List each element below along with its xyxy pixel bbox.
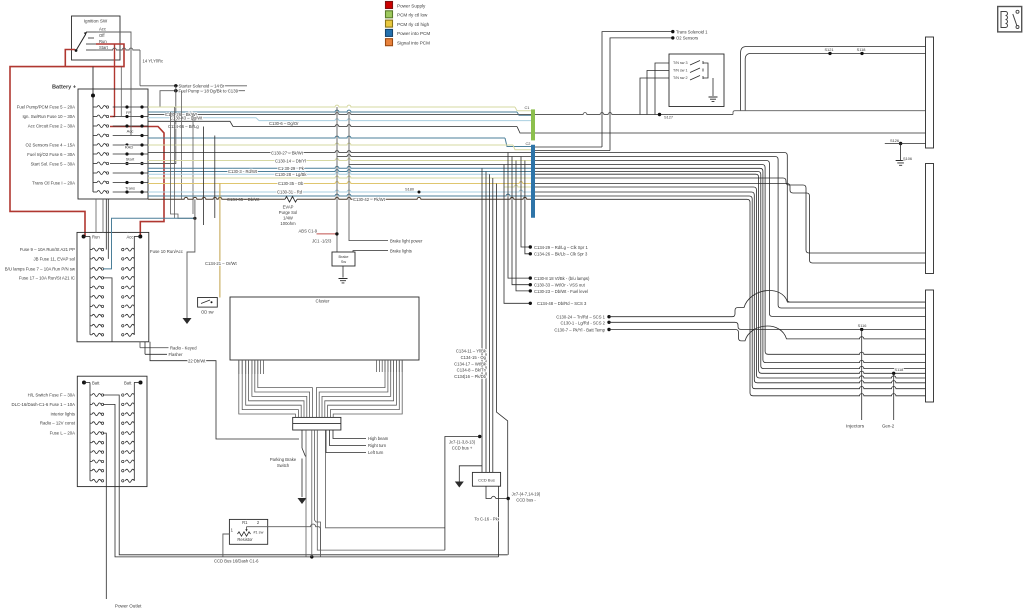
svg-text:C130-6 – Dg/Or: C130-6 – Dg/Or (269, 121, 299, 126)
svg-text:C134-29 – Rd/Lg – Clk Spr 1: C134-29 – Rd/Lg – Clk Spr 1 (534, 245, 588, 250)
wire pcm C2 line 3 to right bus (535, 165, 926, 355)
svg-text:Injectors: Injectors (846, 424, 865, 430)
ignition contact Off (88, 37, 94, 39)
wire pcm C2 line 5 to right bus (535, 172, 926, 369)
wire pcm C2 line 6 to right bus (535, 174, 926, 373)
olive wire to OD switch (219, 184, 221, 298)
relay icon K1 (998, 7, 1022, 32)
svg-text:Start Sol. Fuse 5 – 30A: Start Sol. Fuse 5 – 30A (31, 162, 76, 167)
svg-text:Cluster: Cluster (316, 299, 330, 304)
svg-text:Battery +: Battery + (52, 85, 77, 91)
svg-text:High beam: High beam (368, 436, 389, 441)
wire pcm C2 line 2 to right bus (535, 161, 926, 317)
svg-text:C134-8 – Bk/Tn: C134-8 – Bk/Tn (457, 368, 487, 373)
red wire ABS C1-9 (317, 233, 337, 235)
wire top pair a to right bus (741, 47, 926, 111)
wire pcm C2 line 1 to right bus (535, 157, 926, 309)
fuel pump node (174, 89, 177, 92)
batt temp wire arc (609, 326, 926, 341)
node S127 (658, 113, 661, 116)
box1 to box2 verticals (95, 199, 97, 232)
svg-text:Jc7-(4-7,14-19): Jc7-(4-7,14-19) (512, 491, 541, 496)
svg-text:C130-7 – Pk/Yl - Batt Temp: C130-7 – Pk/Yl - Batt Temp (554, 327, 605, 332)
node S118b (892, 372, 895, 375)
legend power supply swatch (386, 2, 393, 9)
svg-text:C130-14 – Db/Yl: C130-14 – Db/Yl (275, 158, 306, 163)
wire start contact (96, 48, 140, 50)
bu lamps wire (508, 153, 530, 279)
brake switch box (332, 252, 355, 266)
starter solenoid node (174, 84, 177, 87)
wire texture vertical e (192, 115, 194, 215)
wire texture vertical c (203, 127, 205, 226)
fuse box 2 acc terminal (138, 235, 142, 239)
svg-text:EVAP: EVAP (283, 205, 294, 210)
svg-text:PCM rly ctl high: PCM rly ctl high (397, 22, 430, 27)
cluster right harness (333, 360, 402, 417)
wire teal to C2 top (148, 136, 505, 138)
fuse box 1 outline (78, 89, 148, 199)
wire starter branch down (110, 86, 176, 164)
wire bundle feeder y152.5 (148, 151, 531, 153)
svg-text:Start: Start (99, 45, 109, 50)
ignition contact Run (86, 43, 96, 45)
batt temp node (607, 328, 610, 331)
node S121 (828, 52, 831, 55)
brake light power wire (349, 112, 388, 241)
o2 sensors wire (610, 38, 673, 151)
node S118 top (860, 52, 863, 55)
fuse box 3 batt terminal 1 (82, 381, 86, 385)
svg-text:C130-35 - Ob: C130-35 - Ob (278, 181, 304, 186)
cluster box (230, 297, 419, 360)
svg-text:JB Fuse 11, EVAP sol: JB Fuse 11, EVAP sol (33, 256, 75, 261)
svg-text:To C-16 - Pk: To C-16 - Pk (474, 516, 498, 521)
scs3 wire (504, 165, 530, 304)
ccd ground arrow (455, 482, 464, 488)
wire bundle feeder y192.0 (148, 190, 531, 192)
svg-text:PCM rly ctl low: PCM rly ctl low (397, 13, 428, 18)
svg-text:Gen-2: Gen-2 (882, 424, 895, 429)
fuse box 1 bus (92, 96, 94, 193)
resistor EVAP purge sol (285, 197, 297, 203)
svg-text:1/4W: 1/4W (283, 216, 293, 221)
gray wire to ground arrow (187, 218, 195, 318)
wire pcm C2 line 9 to right bus (535, 187, 926, 378)
clk spr 1 node (529, 245, 532, 248)
wire bundle feeder y168.3 (148, 166, 531, 168)
svg-text:S126: S126 (890, 138, 899, 143)
cluster right pin stubs (376, 360, 378, 372)
ccd ground wire (459, 466, 482, 482)
svg-text:Jc7-(1-3,8-13): Jc7-(1-3,8-13) (449, 439, 476, 444)
svg-text:Run: Run (92, 235, 100, 240)
fuse box 2 left fuses (89, 237, 91, 335)
fuse box 2 run terminal (82, 235, 86, 239)
parking brake wire (301, 430, 303, 448)
right bus bar 3 (926, 290, 934, 402)
ignition contact Acc (86, 31, 96, 33)
svg-text:C134-48 – Db/Rd – SCS 3: C134-48 – Db/Rd – SCS 3 (537, 301, 587, 306)
scs2 wire (609, 322, 926, 329)
brake lights wire (353, 251, 388, 252)
wire C130-43 light blue (148, 118, 259, 121)
legend power into PCM swatch (386, 29, 393, 36)
jc7 left wire (445, 437, 480, 551)
wire bundle feeder y196.0 (148, 194, 531, 196)
svg-text:Start: Start (126, 157, 135, 162)
svg-text:C130-24 – Tn/Rd – SCS 1: C130-24 – Tn/Rd – SCS 1 (556, 314, 605, 319)
gray od wire node (193, 217, 196, 220)
R1 pin1 wire (223, 534, 230, 557)
fuse box 3 left fuses (89, 383, 91, 481)
power outlet wire (103, 433, 106, 599)
svg-text:Off: Off (99, 33, 105, 38)
wire acc contact down (96, 32, 131, 136)
OD switch box (198, 298, 218, 308)
scs3 node (529, 302, 532, 305)
T/N ground (709, 97, 718, 101)
svg-text:Acc: Acc (127, 235, 134, 240)
wire pcm C2 line 10 to right bus (535, 192, 926, 383)
bu lamps node (529, 276, 532, 279)
fuse box 2 right fuses (133, 237, 135, 335)
svg-text:S118: S118 (895, 367, 904, 372)
svg-text:C130-28 – Lg/Bk: C130-28 – Lg/Bk (275, 172, 307, 177)
svg-text:T/N sw 1: T/N sw 1 (673, 69, 688, 73)
svg-text:C130-42 – Pk/Wt: C130-42 – Pk/Wt (353, 197, 386, 202)
svg-text:C130-1 - Lg/Rd - SCS 2: C130-1 - Lg/Rd - SCS 2 (561, 320, 606, 325)
node S116 (860, 328, 863, 331)
brake node (335, 232, 338, 235)
clk spr 3 wire (525, 161, 530, 254)
wire row4 down (103, 278, 112, 342)
svg-text:Trans Solenoid 1: Trans Solenoid 1 (676, 29, 708, 34)
ground arrow left (183, 318, 192, 324)
ccd bus box (472, 472, 500, 486)
svg-text:S118: S118 (857, 47, 866, 52)
scs1 wire arc (609, 290, 926, 316)
ccd bus - wire (486, 486, 508, 498)
wire C134-65 hops (148, 197, 285, 199)
svg-text:C1: C1 (525, 105, 530, 110)
scs1 node (607, 315, 610, 318)
right turn wire (330, 430, 367, 446)
cluster connector bar (293, 417, 341, 430)
svg-text:100ohm: 100ohm (280, 221, 296, 226)
ccd feed wire 1 (103, 395, 508, 555)
svg-text:C134-26 – Bk/Lb – Clk Spr 3: C134-26 – Bk/Lb – Clk Spr 3 (534, 252, 588, 257)
svg-text:Brake light power: Brake light power (390, 238, 423, 243)
PCM connector C2 (531, 145, 535, 218)
svg-text:Fuel Pump – 18 Dg/Bk to C139: Fuel Pump – 18 Dg/Bk to C139 (179, 89, 239, 94)
wire pcm C2 line 12 to right bus (535, 199, 926, 395)
svg-text:Fuse 9 – 10A Run/St A21 PP: Fuse 9 – 10A Run/St A21 PP (20, 247, 75, 252)
svg-text:Parking Brake: Parking Brake (270, 457, 297, 462)
svg-text:Trans Ctl Fuse I – 20A: Trans Ctl Fuse I – 20A (32, 181, 75, 186)
svg-text:Brake: Brake (339, 255, 349, 259)
svg-text:Sw: Sw (341, 260, 347, 264)
T/N switch common (703, 63, 708, 78)
right bus bar 1 (926, 37, 934, 148)
wire fuel pump feed (160, 91, 245, 107)
svg-text:Power Outlet: Power Outlet (115, 604, 142, 609)
wire fuel pump branch (181, 91, 183, 200)
fuel level wire (516, 161, 530, 291)
gray wire above node (194, 199, 196, 218)
wire top pair b to right bus (745, 53, 925, 110)
svg-text:O2 Sensors: O2 Sensors (676, 36, 698, 41)
wire ign aux vertical (120, 67, 122, 117)
node S180 (418, 191, 421, 194)
svg-text:CCD Bus: CCD Bus (478, 477, 495, 482)
svg-text:14 Yl,Yl/Rc: 14 Yl,Yl/Rc (143, 59, 164, 64)
svg-text:Flasher: Flasher (169, 352, 184, 357)
svg-text:CCD Bus 16/Dash C1-6: CCD Bus 16/Dash C1-6 (214, 558, 259, 563)
T/N wires to S127 line (655, 63, 669, 115)
wire pcm C2 line 0 to right bus (535, 153, 926, 303)
resistor R1 element (238, 532, 251, 536)
clk spr 3 node (529, 252, 532, 255)
svg-text:Batt: Batt (92, 381, 100, 386)
svg-text:S106: S106 (903, 156, 912, 161)
ccd bus - down wire (507, 499, 509, 555)
ccd verticals (481, 168, 483, 472)
svg-text:Ignition SW: Ignition SW (84, 19, 108, 24)
brake switch ground (339, 279, 348, 283)
svg-text:#1 sw: #1 sw (253, 530, 263, 534)
ccd right vertical (497, 184, 508, 499)
teal backup lamp wire (103, 218, 195, 269)
svg-text:C130-3 - Rd/Wt: C130-3 - Rd/Wt (228, 169, 258, 174)
svg-text:CCD bus -: CCD bus - (516, 497, 536, 502)
wire texture vertical a (171, 112, 195, 218)
svg-text:DLC-16/Dash-C1-6 Fuse 1 – 10A: DLC-16/Dash-C1-6 Fuse 1 – 10A (11, 402, 75, 407)
svg-text:Signal into PCM: Signal into PCM (397, 41, 430, 46)
wire texture vertical d (214, 136, 216, 219)
svg-text:S180: S180 (405, 186, 415, 191)
bar down wire a (305, 430, 307, 557)
vss out wire (512, 157, 530, 285)
injectors wire (861, 329, 863, 420)
left turn wire (326, 430, 366, 453)
wire starter solenoid (140, 85, 247, 87)
svg-text:Acc Circuit Fuse 2 – 30A: Acc Circuit Fuse 2 – 30A (28, 124, 75, 129)
wire bundle feeder y174.2 (148, 172, 531, 174)
wire bundle feeder y160.5 (148, 159, 531, 161)
fuse box 3 outline (77, 376, 147, 486)
flasher wire (145, 353, 167, 355)
svg-text:Purge Sol: Purge Sol (279, 210, 297, 215)
svg-text:CCD bus +: CCD bus + (452, 445, 473, 450)
wire khaki to C1 (148, 105, 515, 107)
gen2 wire (893, 373, 895, 420)
svg-text:RAD: RAD (125, 144, 134, 149)
cluster left pin stubs (238, 360, 240, 374)
fuse box 1 fuses (93, 106, 97, 108)
wire khaki to C2 top (148, 143, 513, 145)
ignition contact Start (86, 49, 96, 51)
svg-text:Fuse 10 Run/Acc: Fuse 10 Run/Acc (150, 249, 184, 254)
svg-text:interior lights: interior lights (51, 412, 75, 417)
svg-text:C134-11 – Yl/Bk: C134-11 – Yl/Bk (456, 348, 487, 353)
svg-text:Radio - Keyed: Radio - Keyed (170, 345, 197, 350)
svg-text:C134-66 – Br/Lg: C134-66 – Br/Lg (168, 124, 199, 129)
battery bus feed wire (92, 67, 94, 96)
fuse box 3 right fuses (133, 383, 135, 481)
bar down wire d (317, 430, 445, 550)
red wire run branch to ign fuse (110, 44, 115, 117)
fuel level node (529, 289, 532, 292)
red wire acc circuit fuse to acc bus (110, 127, 164, 237)
wire bundle feeder y183.5 (148, 182, 531, 184)
ignition switch box (72, 16, 121, 60)
resistor R1 box (229, 519, 267, 544)
ccd feed wire 2 (103, 404, 499, 557)
radio keyed wire (140, 347, 169, 349)
fuse box 1 terminal dots (125, 105, 128, 108)
svg-text:C130-23 – Db/Wt - Fuel level: C130-23 – Db/Wt - Fuel level (534, 289, 588, 294)
ccd box right down wire (498, 486, 500, 557)
svg-text:C134-17 – Wt/Bk: C134-17 – Wt/Bk (454, 361, 487, 366)
svg-text:S127: S127 (664, 115, 673, 120)
brake switch ground wire (342, 266, 344, 278)
trans solenoid 1 node (671, 30, 674, 33)
wire pcm C2 line 11 to right bus (535, 196, 926, 389)
wire divert to right bus2 a (535, 178, 926, 253)
svg-text:C2: C2 (526, 141, 531, 146)
o2 sensors node (671, 36, 674, 39)
legend PCM rly ctl low swatch (386, 11, 393, 18)
parking brake ground (298, 498, 307, 504)
R1 pin2 wire (247, 524, 321, 557)
wire pcm C2 line 4 to right bus (535, 168, 926, 362)
T/N switch box (669, 54, 724, 107)
wire divert to right bus2 b (535, 184, 926, 264)
svg-text:Resistor: Resistor (237, 537, 253, 542)
wire teal to C1 (148, 110, 517, 112)
svg-text:22 Db/Wt: 22 Db/Wt (188, 358, 206, 363)
svg-text:O2 Sensors Fuse 4 – 15A: O2 Sensors Fuse 4 – 15A (26, 143, 76, 148)
svg-text:C130-43 – Dg/Wt: C130-43 – Dg/Wt (170, 115, 203, 120)
svg-text:JC1 -1/2/3: JC1 -1/2/3 (312, 238, 332, 243)
svg-text:Radio – 12V const: Radio – 12V const (40, 421, 76, 426)
node S126 (899, 142, 902, 145)
svg-text:Ign. Sw/Run Fuse 10 – 30A: Ign. Sw/Run Fuse 10 – 30A (22, 114, 75, 119)
22 db/wt wire (150, 342, 299, 439)
legend PCM rly ctl high swatch (386, 20, 393, 27)
PCM connector C1 (531, 109, 535, 140)
svg-text:C130-27 – Bk/Wt: C130-27 – Bk/Wt (271, 150, 304, 155)
svg-text:C1 30-29 - Pk: C1 30-29 - Pk (278, 166, 305, 171)
svg-text:Power Supply: Power Supply (397, 3, 426, 8)
svg-text:Acc: Acc (99, 27, 106, 32)
svg-text:C134-21 – Or/Wt: C134-21 – Or/Wt (205, 261, 237, 266)
red wire run contact to fuse box (66, 44, 124, 67)
svg-text:Switch: Switch (277, 463, 290, 468)
svg-text:T/N sw 3: T/N sw 3 (673, 61, 688, 65)
svg-text:ABS C1-9: ABS C1-9 (299, 228, 318, 233)
svg-text:OD sw: OD sw (201, 309, 215, 314)
wire bundle feeder y171.5 (148, 170, 531, 172)
ccd bus node (310, 555, 313, 558)
wire C134-66 (148, 121, 233, 126)
jc7 ccd bus - node (507, 497, 510, 500)
bar down wire c (315, 430, 321, 550)
svg-text:Fuse 17 – 10A Run/St A21 IC: Fuse 17 – 10A Run/St A21 IC (19, 275, 75, 280)
S106 ground wire (900, 144, 902, 161)
wire bundle feeder y178.0 (148, 176, 531, 178)
red wire ignition feed (10, 50, 85, 237)
svg-text:R1: R1 (242, 520, 248, 525)
wire texture vertical b (174, 107, 176, 218)
clk spr 1 wire (521, 157, 530, 248)
svg-text:Right turn: Right turn (368, 443, 387, 448)
svg-text:S116: S116 (858, 323, 867, 328)
svg-text:C130-8 18 Vt/Bk - (b/u lamps): C130-8 18 Vt/Bk - (b/u lamps) (534, 276, 590, 281)
ground S106 (896, 161, 906, 166)
cluster left harness (239, 360, 296, 417)
right bus bar 2 (926, 164, 934, 274)
wire bundle feeder y199.3 (297, 197, 531, 199)
svg-text:B/U lamps Fuse 7 – 10A Run P/N: B/U lamps Fuse 7 – 10A Run P/N sw (5, 266, 76, 271)
wire bundle feeder y187.0 (504, 185, 531, 187)
svg-text:Trans: Trans (125, 186, 135, 191)
brake sw feed wire (336, 107, 338, 252)
fuse box 2 outline (77, 232, 149, 341)
high beam wire (333, 430, 366, 439)
bar down wire b (311, 430, 313, 557)
bar down wire e (326, 430, 445, 528)
svg-text:C134|16 – Pk/Db: C134|16 – Pk/Db (454, 374, 486, 379)
svg-text:Fuel Inj/O2 Fuse 6 – 30A: Fuel Inj/O2 Fuse 6 – 30A (27, 152, 75, 157)
jc7 ccd bus + node (478, 435, 481, 438)
svg-text:C130-31 - Rd: C130-31 - Rd (277, 190, 303, 195)
svg-text:C130-33 – Wt/Or - VSS out: C130-33 – Wt/Or - VSS out (534, 283, 586, 288)
legend signal into PCM swatch (386, 39, 393, 46)
svg-text:H/L Switch Fuse F – 30A: H/L Switch Fuse F – 30A (28, 393, 75, 398)
svg-text:Batt: Batt (124, 381, 132, 386)
svg-text:Fuse L – 20A: Fuse L – 20A (50, 431, 76, 436)
svg-text:Fuel Pump/PCM Fuse 5 – 20A: Fuel Pump/PCM Fuse 5 – 20A (17, 105, 75, 110)
fuse box 3 batt terminal 2 (139, 381, 143, 385)
svg-text:C134-15 - Og: C134-15 - Og (461, 355, 487, 360)
wire C130-26 long (148, 113, 733, 115)
trans solenoid 1 wire (602, 32, 673, 147)
ignition rotor blade (75, 49, 78, 52)
svg-text:Acc: Acc (127, 128, 134, 133)
wire bundle feeder y164.5 (349, 164, 531, 166)
svg-text:T/N sw 2: T/N sw 2 (673, 76, 688, 80)
scs2 node (607, 321, 610, 324)
vss out node (529, 283, 532, 286)
wire bundle feeder y156.5 (337, 155, 531, 157)
svg-text:Brake lights: Brake lights (390, 248, 412, 253)
svg-text:Power into PCM: Power into PCM (397, 31, 430, 36)
svg-text:Left turn: Left turn (368, 450, 384, 455)
svg-text:S121: S121 (824, 47, 833, 52)
